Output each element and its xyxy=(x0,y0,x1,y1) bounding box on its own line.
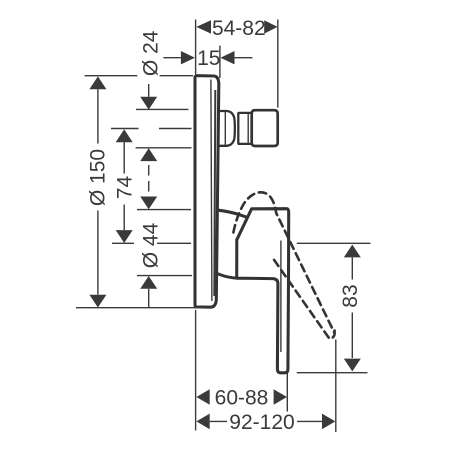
dimension O150 lower line xyxy=(97,211,99,295)
dimension O24 upper tail xyxy=(148,84,150,97)
handle hub top edge xyxy=(218,210,247,217)
escutcheon plate (side view outline) xyxy=(195,76,219,308)
dimension O150 top arrow xyxy=(89,76,106,89)
dashed lever tip cap xyxy=(272,257,335,339)
dimension O24 top arrow xyxy=(140,97,157,110)
dimension 83 bottom arrow xyxy=(344,359,361,372)
dimension O24 bottom arrow xyxy=(140,148,157,161)
dimension O44 lower tail xyxy=(148,289,150,308)
wire wall line (lower segment) xyxy=(195,310,197,431)
dimension 60-88 right arrow xyxy=(274,389,287,405)
handle left edge xyxy=(235,240,238,278)
extension line 83 top xyxy=(297,242,371,244)
dimension O44 top arrow xyxy=(140,197,157,210)
dimension 60-88 left arrow xyxy=(196,389,209,405)
svg-text:54-82: 54-82 xyxy=(212,17,266,40)
dashed lever (open position) xyxy=(233,192,334,332)
svg-text:15: 15 xyxy=(197,47,220,70)
spout stub middle section xyxy=(238,113,250,144)
dimension 54-82 right extension line xyxy=(277,20,279,108)
dimension 15 left tail xyxy=(163,57,181,59)
dimension 54-82 right arrow xyxy=(264,20,277,33)
dimension 54-82 left arrow xyxy=(196,20,211,33)
dimension 74 top arrow xyxy=(116,129,133,142)
dimension 74 upper line xyxy=(123,142,125,173)
spout stub flange with ball nose xyxy=(219,111,235,146)
stub flange chamfer line xyxy=(224,112,226,145)
dimension 83 lower line xyxy=(351,313,353,359)
extension line stub centerline xyxy=(111,128,192,130)
extension line 83 bottom xyxy=(297,372,368,374)
svg-text:74: 74 xyxy=(114,176,137,200)
extension line stub bottom xyxy=(136,147,192,149)
dimension 15 right arrow xyxy=(221,51,235,64)
dimension 15 left arrow xyxy=(181,51,195,64)
dimension O44 bottom arrow xyxy=(140,276,157,289)
dimension 92-120 right tail xyxy=(297,420,323,422)
svg-text:92-120: 92-120 xyxy=(229,411,294,434)
dimension O150 upper line xyxy=(97,89,99,143)
dimension 74 lower line xyxy=(123,205,125,231)
dimension 83 top arrow xyxy=(344,245,361,258)
extension line lever tip xyxy=(286,373,288,412)
extension line plate bottom xyxy=(76,307,211,309)
stub middle joint line xyxy=(247,114,249,144)
plate front-face double line xyxy=(214,90,215,296)
extension line handle centerline xyxy=(112,242,191,244)
extension line stub top xyxy=(136,108,189,110)
dimension 92-120 left tail xyxy=(210,420,227,422)
dimension 83 upper line xyxy=(351,257,353,279)
extension line plate top xyxy=(85,75,193,77)
lever handle outline xyxy=(218,209,289,373)
spout stub end block xyxy=(252,110,278,146)
svg-text:Ø 24: Ø 24 xyxy=(140,30,163,76)
svg-text:Ø 44: Ø 44 xyxy=(140,222,163,268)
lever inner highlight line xyxy=(280,241,282,353)
dimension 15 right extension line xyxy=(219,46,221,78)
svg-text:83: 83 xyxy=(339,284,362,307)
extension line hub top xyxy=(137,209,191,211)
dimension 92-120 left arrow xyxy=(196,414,209,430)
dimension 92-120 right arrow xyxy=(322,414,335,430)
dimension 15 right tail xyxy=(235,57,253,59)
extension line hub bottom xyxy=(137,275,192,277)
dimension O150 bottom arrow xyxy=(89,295,106,308)
extension line dashed lever tip xyxy=(335,340,337,433)
wire wall line (finished wall plane, upper segment) xyxy=(195,20,197,75)
svg-text:60-88: 60-88 xyxy=(215,386,269,409)
dashed connector below O24 arrow xyxy=(148,165,150,196)
plate inner chamfer line xyxy=(211,80,212,302)
dimension 74 bottom arrow xyxy=(116,230,133,243)
svg-text:Ø 150: Ø 150 xyxy=(87,149,110,206)
